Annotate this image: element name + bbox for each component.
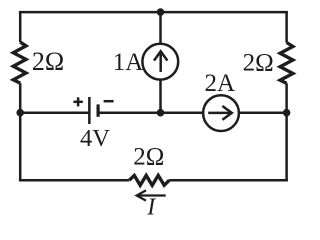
svg-text:2Ω: 2Ω	[32, 47, 64, 76]
svg-text:I: I	[146, 195, 156, 221]
wire right upper lead	[285, 12, 288, 42]
resistor 2ohm right	[280, 43, 293, 84]
wire stub bottom of 1A source	[159, 79, 162, 113]
node junction dot left (middle wire to left wire)	[16, 109, 24, 117]
wire bottom left	[19, 179, 129, 182]
battery 4V long plate	[88, 97, 91, 124]
wire left upper lead	[19, 12, 22, 42]
node junction dot center (1A to middle wire)	[157, 109, 165, 117]
wire top	[19, 11, 288, 14]
resistor 2ohm bottom	[129, 175, 169, 185]
svg-text:2Ω: 2Ω	[243, 50, 274, 77]
wire bottom right	[169, 179, 288, 182]
svg-text:4V: 4V	[80, 125, 110, 152]
current source 1A arrow	[154, 51, 167, 72]
svg-text:2Ω: 2Ω	[133, 144, 164, 171]
current source 2A arrow	[208, 106, 232, 120]
wire stub top of 1A source	[159, 12, 162, 44]
battery minus sign	[104, 100, 114, 103]
current arrow I at bottom resistor	[137, 190, 166, 200]
svg-text:2A: 2A	[205, 70, 236, 97]
wire middle right of 2A source	[239, 111, 287, 114]
svg-text:1A: 1A	[113, 49, 144, 76]
node junction dot right (middle wire to right wire)	[283, 109, 291, 117]
wire right lower	[285, 83, 288, 180]
wire middle between battery and 2A source	[98, 111, 204, 114]
battery 4V short plate	[96, 104, 99, 116]
wire left lower	[19, 83, 22, 180]
resistor 2ohm left	[13, 42, 26, 83]
wire middle left of battery	[20, 111, 88, 114]
current source 2A circle	[203, 95, 239, 131]
node junction dot top (1A to top wire)	[157, 8, 165, 16]
current source 1A circle	[142, 44, 178, 80]
battery plus sign	[73, 97, 82, 106]
